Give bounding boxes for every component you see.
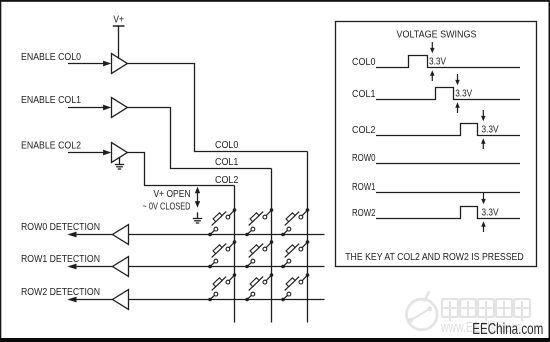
buffer U4 (ROW0 detector) — [113, 225, 129, 245]
switch S6 (ROW1/COL0) with junction nodes — [281, 240, 309, 268]
wire ROW2 line — [129, 299, 325, 301]
switch S8 (ROW2/COL1) with junction nodes — [245, 273, 273, 301]
value 3.3V for COL0 — [429, 57, 446, 68]
svg-text:THE KEY AT COL2 AND ROW2 IS PR: THE KEY AT COL2 AND ROW2 IS PRESSED — [345, 252, 524, 263]
switch S1 (ROW0/COL2) with junction nodes — [208, 208, 236, 236]
label waveform ROW0 — [352, 153, 376, 164]
svg-text:3.3V: 3.3V — [482, 125, 499, 136]
arrow above COL2 pulse — [481, 110, 486, 121]
svg-text:ENABLE COL1: ENABLE COL1 — [21, 95, 81, 106]
label waveform COL1 — [352, 89, 376, 100]
buffer U6 (ROW2 detector) — [113, 290, 129, 310]
svg-text:ENABLE COL0: ENABLE COL0 — [21, 52, 81, 63]
wire COL2 column vertical — [234, 186, 236, 323]
waveform ROW1 trace (flat) — [376, 192, 520, 194]
arrow below COL0 pulse — [430, 70, 435, 81]
svg-text:ROW2: ROW2 — [352, 208, 376, 219]
arrow above COL1 pulse — [455, 74, 460, 85]
power V+ supply symbol — [113, 14, 125, 58]
label ROW2 DETECTION — [21, 287, 100, 298]
watermark text (Chinese) — [442, 299, 530, 321]
svg-text:3.3V: 3.3V — [455, 89, 472, 100]
label waveform ROW2 — [352, 208, 376, 219]
arrow above COL0 pulse — [430, 42, 435, 53]
timing diagram box — [336, 22, 537, 267]
label waveform COL2 — [352, 125, 376, 136]
svg-text:COL1: COL1 — [215, 157, 239, 168]
label V+ OPEN / 0V CLOSED — [143, 189, 191, 213]
label waveform COL0 — [352, 57, 376, 68]
svg-text:COL1: COL1 — [352, 89, 376, 100]
svg-text:ROW0 DETECTION: ROW0 DETECTION — [21, 222, 100, 233]
svg-text:3.3V: 3.3V — [482, 208, 499, 219]
svg-text:COL2: COL2 — [215, 175, 239, 186]
wire ROW0 output with arrow — [67, 232, 112, 238]
value 3.3V for COL2 — [482, 125, 499, 136]
svg-text:ROW0: ROW0 — [352, 153, 376, 164]
label ROW1 DETECTION — [21, 254, 100, 265]
double arrow (switch voltage) — [195, 187, 200, 208]
wire ENABLE COL1 input with arrow — [68, 105, 111, 111]
label net COL2 — [215, 175, 239, 186]
switch S5 (ROW1/COL1) with junction nodes — [245, 240, 273, 268]
waveform COL1 trace with pulse — [376, 88, 520, 100]
buffer U2 (COL1 driver) — [112, 98, 128, 118]
buffer U3 (COL2 driver) — [112, 143, 128, 163]
switch S2 (ROW0/COL1) with junction nodes — [245, 208, 273, 236]
svg-text:COL0: COL0 — [215, 140, 239, 151]
watermark EEChina.com — [472, 321, 543, 338]
buffer U1 (COL0 driver) — [112, 54, 128, 74]
label net COL1 — [215, 157, 239, 168]
svg-text:COL0: COL0 — [352, 57, 376, 68]
arrow below COL1 pulse — [455, 102, 460, 113]
wire ENABLE COL2 input with arrow — [68, 150, 111, 156]
wire ROW0 line — [129, 234, 325, 236]
svg-text:ROW2 DETECTION: ROW2 DETECTION — [21, 287, 100, 298]
wire COL0 column vertical — [307, 152, 309, 323]
wire COL1 feed (U2 output to matrix) — [127, 108, 271, 169]
waveform ROW2 trace with pulse — [376, 207, 520, 219]
svg-text:COL2: COL2 — [352, 125, 376, 136]
svg-text:ROW1: ROW1 — [352, 182, 376, 193]
watermark url ghost — [440, 319, 521, 336]
svg-text:VOLTAGE SWINGS: VOLTAGE SWINGS — [397, 29, 477, 40]
svg-text:EEChina.com: EEChina.com — [472, 321, 543, 338]
arrow below COL2 pulse — [481, 138, 486, 149]
wire ROW2 output with arrow — [67, 297, 112, 303]
label ENABLE COL2 — [21, 141, 81, 152]
waveform ROW0 trace (flat) — [376, 163, 520, 165]
value 3.3V for COL1 — [455, 89, 472, 100]
caption THE KEY AT COL2 AND ROW2 IS PRESSED — [345, 252, 524, 263]
switch S3 (ROW0/COL0) with junction nodes — [281, 208, 309, 236]
value 3.3V for ROW2 — [482, 208, 499, 219]
buffer U5 (ROW1 detector) — [113, 257, 129, 277]
label ENABLE COL0 — [21, 52, 81, 63]
wire COL0 feed (U1 output to matrix) — [127, 64, 307, 152]
label net COL0 — [215, 140, 239, 151]
wire ROW1 line — [129, 266, 325, 268]
waveform COL2 trace with pulse — [376, 124, 520, 136]
wire COL1 column vertical — [271, 169, 273, 323]
ground at buffer U3 — [115, 157, 124, 169]
switch S9 (ROW2/COL0) with junction nodes — [281, 273, 309, 301]
label ENABLE COL1 — [21, 95, 81, 106]
svg-text:3.3V: 3.3V — [429, 57, 446, 68]
watermark logo circle — [407, 292, 438, 330]
svg-text:~ 0V CLOSED: ~ 0V CLOSED — [143, 202, 191, 213]
label ROW0 DETECTION — [21, 222, 100, 233]
svg-text:ROW1 DETECTION: ROW1 DETECTION — [21, 254, 100, 265]
wire ROW1 output with arrow — [67, 264, 112, 270]
label waveform ROW1 — [352, 182, 376, 193]
svg-text:ENABLE COL2: ENABLE COL2 — [21, 141, 81, 152]
label VOLTAGE SWINGS — [397, 29, 477, 40]
arrow below ROW2 pulse — [481, 221, 486, 232]
svg-text:V+: V+ — [113, 14, 124, 25]
wire ENABLE COL0 input with arrow — [68, 61, 111, 67]
ground below double arrow — [193, 212, 202, 223]
switch S4 (ROW1/COL2) with junction nodes — [208, 240, 236, 268]
switch S7 (ROW2/COL2) with junction nodes — [208, 273, 236, 301]
svg-text:V+ OPEN: V+ OPEN — [154, 189, 191, 200]
waveform COL0 trace with pulse — [376, 56, 520, 68]
wire COL2 feed (U3 output to matrix) — [127, 153, 234, 186]
arrow above ROW2 pulse — [481, 193, 486, 204]
